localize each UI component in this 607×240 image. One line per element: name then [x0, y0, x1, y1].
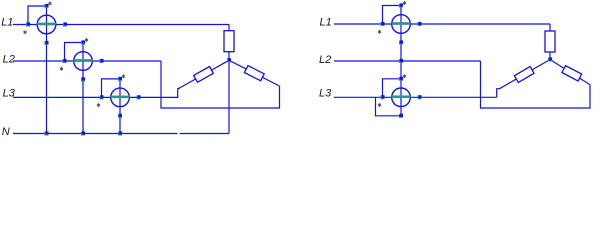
wire star node down to N: [228, 60, 230, 133]
CT CT2 on L2 polarity mark left: [60, 67, 63, 71]
CT CT2 on L2 secondary loop wire: [65, 43, 84, 62]
CT CT2 on L2 right terminal dot: [100, 59, 104, 63]
junction CT3 vertical on N: [118, 131, 122, 135]
svg-text:L3: L3: [319, 88, 332, 100]
CT CT4 on L1 (right) bottom terminal dot: [399, 40, 403, 44]
wire neutral N left segment: [13, 133, 177, 135]
wire neutral N right segment: [180, 133, 229, 135]
wire CT1 secondary vertical: [46, 6, 48, 134]
wire resistor R4 to star node: [549, 52, 551, 60]
CT CT2 on L2 primary bar: [73, 59, 92, 62]
CT CT4 on L1 (right) primary bar: [391, 22, 410, 25]
wire CT5 lower loop: [376, 97, 402, 116]
wire left diagonal (R5): [500, 60, 551, 89]
svg-text:L1: L1: [320, 17, 332, 29]
wire L3 up-tick: [178, 89, 180, 98]
CT CT4 on L1 (right) left terminal dot: [381, 22, 385, 26]
wire phase L1 (right): [334, 23, 550, 25]
wire phase L2 (left): [13, 60, 161, 62]
CT CT3 on L3 primary bar: [110, 96, 129, 99]
CT CT4 on L1 (right) secondary loop wire: [383, 6, 402, 25]
CT CT1 on L1 left terminal dot: [26, 22, 30, 26]
CT CT3 on L3 polarity mark top: [122, 74, 125, 78]
CT CT2 on L2 bottom terminal dot: [81, 77, 85, 81]
wire phase L2 (right): [334, 60, 481, 62]
CT CT1 on L1 polarity mark top: [48, 2, 51, 6]
CT CT3 on L3 polarity mark left: [97, 103, 100, 107]
CT CT5 on L3 (right) polarity mark left: [378, 103, 381, 107]
wire right diagonal (R6): [550, 60, 590, 85]
resistor R3 (left load, phase L2): [244, 66, 264, 81]
resistor R2 (left load, phase L3): [194, 67, 214, 83]
resistor R4 (right load, phase L1): [545, 31, 555, 52]
CT CT5 on L3 (right) polarity mark top: [403, 74, 406, 78]
wire phase L1 (left): [13, 24, 229, 26]
wire L3 up-tick (right): [497, 89, 501, 98]
junction CT2 vertical on N: [81, 131, 85, 135]
wire CT2 secondary vertical: [82, 43, 84, 134]
resistor R5 (right load, phase L3): [514, 67, 534, 83]
CT CT1 on L1 top terminal dot: [45, 4, 49, 8]
wire phase L3 (right): [334, 96, 497, 98]
wire left diagonal (R2): [179, 60, 230, 88]
wire L2 to resistor R3 path: [161, 61, 280, 108]
svg-text:N: N: [2, 126, 10, 138]
CT CT2 on L2 top terminal dot: [81, 40, 85, 44]
wire shared secondary vertical (right CTs): [400, 6, 402, 116]
CT CT1 on L1 primary bar: [37, 23, 56, 26]
svg-text:L2: L2: [319, 54, 331, 66]
CT CT5 on L3 (right) left terminal dot: [381, 95, 385, 99]
wire phase L3 (left): [13, 96, 178, 98]
wire right diagonal (R3): [229, 60, 280, 86]
CT CT4 on L1 (right) polarity mark top: [403, 1, 406, 5]
CT CT5 on L3 (right) top terminal dot: [399, 77, 403, 81]
resistor R6 (right load, phase L2): [562, 66, 582, 81]
CT CT2 on L2 circle: [74, 52, 93, 71]
CT CT2 on L2 left terminal dot: [63, 59, 67, 63]
CT CT4 on L1 (right) polarity mark left: [378, 30, 381, 34]
CT CT5 on L3 (right) primary bar: [391, 95, 410, 98]
svg-text:L1: L1: [1, 17, 13, 29]
svg-text:L2: L2: [3, 54, 15, 66]
CT CT3 on L3 right terminal dot: [137, 95, 141, 99]
wire L1 down to resistor R1: [228, 25, 230, 32]
CT CT5 on L3 (right) right terminal dot: [418, 95, 422, 99]
wire resistor R1 to star node: [228, 52, 230, 61]
CT CT1 on L1 secondary loop wire: [28, 6, 47, 25]
CT CT4 on L1 (right) right terminal dot: [418, 22, 422, 26]
CT CT3 on L3 left terminal dot: [100, 95, 104, 99]
CT CT4 on L1 (right) circle: [392, 15, 411, 34]
CT CT1 on L1 polarity mark left: [23, 30, 26, 34]
CT CT1 on L1 right terminal dot: [63, 22, 67, 26]
CT CT1 on L1 bottom terminal dot: [45, 41, 49, 45]
CT CT5 on L3 (right) bottom terminal dot: [399, 114, 403, 118]
CT CT4 on L1 (right) top terminal dot: [399, 3, 403, 7]
junction CT1 vertical on N: [45, 131, 49, 135]
CT CT3 on L3 top terminal dot: [118, 77, 122, 81]
wire L1 down to resistor R4: [549, 24, 551, 31]
star node (right load): [548, 57, 552, 61]
CT CT3 on L3 bottom terminal dot: [118, 114, 122, 118]
CT CT3 on L3 secondary loop wire: [102, 79, 121, 98]
resistor R1 (left load, phase L1): [224, 31, 234, 52]
CT CT1 on L1 circle: [37, 15, 56, 34]
junction secondary vertical on L2 (right): [399, 59, 403, 63]
CT CT5 on L3 (right) secondary loop wire: [383, 79, 402, 98]
wire L2 to resistor R6 path: [481, 61, 591, 108]
CT CT5 on L3 (right) circle: [392, 88, 411, 107]
star node (left load): [227, 58, 231, 62]
CT CT2 on L2 polarity mark top: [85, 38, 88, 42]
wire CT3 secondary vertical: [119, 79, 121, 134]
CT CT3 on L3 circle: [111, 88, 130, 107]
